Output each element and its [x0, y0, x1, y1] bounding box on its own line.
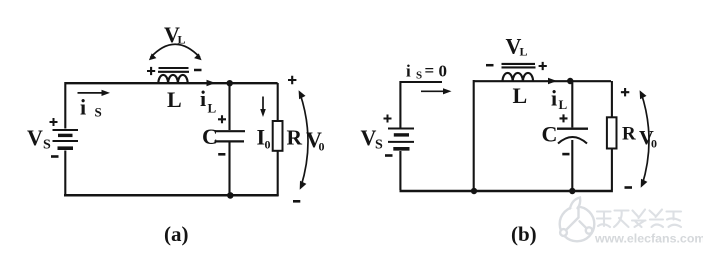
plus sign of V_0 (b)	[621, 88, 629, 96]
minus sign of V_0 (a)	[293, 200, 300, 203]
svg-text:=: =	[425, 61, 435, 80]
wire capacitor branch upper (b)	[571, 81, 573, 127]
node junction dot bottom right (b)	[569, 188, 575, 194]
svg-text:i: i	[406, 62, 411, 81]
resistor R box (a)	[273, 121, 283, 151]
svg-text:S: S	[416, 70, 422, 82]
node junction dot bottom (a)	[227, 192, 234, 199]
label V_S (b)	[361, 125, 384, 153]
wire source bottom (b): battery down to bottom wire	[399, 151, 401, 190]
minus sign of source (a)	[51, 155, 59, 158]
wire source top stub (b): battery up and right, open end	[400, 82, 442, 129]
svg-text:L: L	[513, 83, 528, 108]
plus sign of source (a)	[50, 118, 58, 126]
battery source V_S (b)	[388, 129, 414, 149]
plus sign of V_0 (a)	[288, 76, 296, 84]
voltage arc V_0 (b)	[640, 90, 649, 188]
svg-text:R: R	[622, 124, 636, 145]
voltage arc V_0 (a)	[299, 90, 308, 190]
wire capacitor branch lower (a)	[228, 142, 230, 196]
label V_L (a)	[164, 22, 186, 47]
label i_S = 0 (b)	[406, 61, 447, 82]
wire bottom (b)	[400, 190, 613, 192]
svg-text:C: C	[202, 124, 218, 149]
capacitor C curved plate (b)	[558, 137, 587, 144]
current arrowhead i_L on wire (b)	[548, 78, 557, 85]
battery source V_S (a)	[53, 130, 79, 148]
svg-text:L: L	[559, 97, 568, 112]
wire left upper (a): top wire down to battery	[64, 82, 66, 129]
plus sign of capacitor (b)	[560, 114, 568, 122]
wire right branch lower (a)	[277, 151, 279, 196]
wire top (b): left corner to R top corner	[474, 80, 612, 82]
svg-text:C: C	[542, 122, 558, 147]
minus sign of capacitor (b)	[562, 153, 569, 156]
wire right branch lower (b)	[611, 149, 613, 191]
svg-text:L: L	[520, 45, 528, 59]
plus sign at inductor right (b)	[539, 62, 547, 70]
svg-text:0: 0	[439, 62, 448, 81]
current arrow i_S (a)	[78, 90, 111, 96]
wire left vertical of LC loop (b)	[473, 80, 475, 190]
voltage arc V_L over inductor (a)	[149, 44, 202, 60]
svg-text:www.elecfans.com: www.elecfans.com	[594, 232, 703, 246]
minus sign at inductor left (b)	[486, 64, 494, 67]
svg-text:i: i	[80, 95, 86, 120]
wire top (a): V_S top to R top corner	[65, 82, 278, 84]
label i_S (a)	[80, 95, 102, 120]
current arrowhead i_L on wire (a)	[207, 80, 216, 87]
current arrow I_0 (a)	[260, 97, 266, 118]
inductor L core bars (b)	[502, 64, 536, 68]
svg-text:0: 0	[651, 137, 657, 151]
svg-text:S: S	[375, 138, 383, 153]
inductor L core bars (a)	[158, 68, 189, 72]
current arrow i_S (b)	[421, 88, 452, 94]
svg-text:L: L	[167, 87, 182, 112]
minus sign of source (b)	[385, 154, 393, 157]
capacitor C plates (a)	[215, 131, 246, 141]
wire right branch upper (b)	[611, 81, 613, 117]
svg-text:R: R	[287, 126, 303, 150]
capacitor C top plate (b)	[557, 128, 588, 130]
label I_0 (a)	[257, 125, 271, 152]
svg-text:(a): (a)	[164, 222, 189, 246]
wire capacitor branch lower (b)	[571, 140, 573, 190]
resistor R box (b)	[607, 117, 617, 148]
svg-text:S: S	[43, 138, 51, 153]
node junction dot bottom left (b)	[471, 188, 477, 194]
label i_L (a)	[200, 86, 217, 116]
inductor L coil (b)	[503, 73, 534, 82]
label V_L (b)	[506, 34, 528, 59]
svg-text:0: 0	[319, 140, 325, 154]
wire right branch upper (a)	[277, 83, 279, 121]
inductor L coil (a)	[158, 75, 187, 84]
plus sign of capacitor (a)	[218, 115, 226, 123]
label i_L (b)	[551, 86, 568, 113]
wire capacitor branch upper (a)	[228, 83, 230, 130]
svg-text:V: V	[27, 125, 43, 150]
svg-text:S: S	[95, 105, 102, 120]
wire bottom (a)	[64, 194, 279, 197]
svg-text:L: L	[208, 101, 217, 116]
minus sign of V_0 (b)	[625, 186, 633, 189]
label V_0 (b)	[639, 127, 657, 151]
node junction dot top (a)	[227, 80, 233, 86]
label V_0 (a)	[306, 127, 325, 154]
svg-text:0: 0	[265, 138, 271, 152]
svg-text:(b): (b)	[511, 222, 537, 246]
svg-text:i: i	[200, 86, 206, 111]
minus sign of capacitor (a)	[218, 153, 225, 156]
plus sign of source (b)	[384, 115, 392, 123]
label V_S (a)	[27, 125, 51, 153]
plus sign at inductor left (a)	[147, 67, 155, 75]
node junction dot top (b)	[567, 78, 573, 84]
wire left lower (a): battery to bottom wire	[64, 151, 66, 197]
svg-text:i: i	[551, 86, 557, 111]
minus sign at inductor right (a)	[194, 69, 202, 72]
